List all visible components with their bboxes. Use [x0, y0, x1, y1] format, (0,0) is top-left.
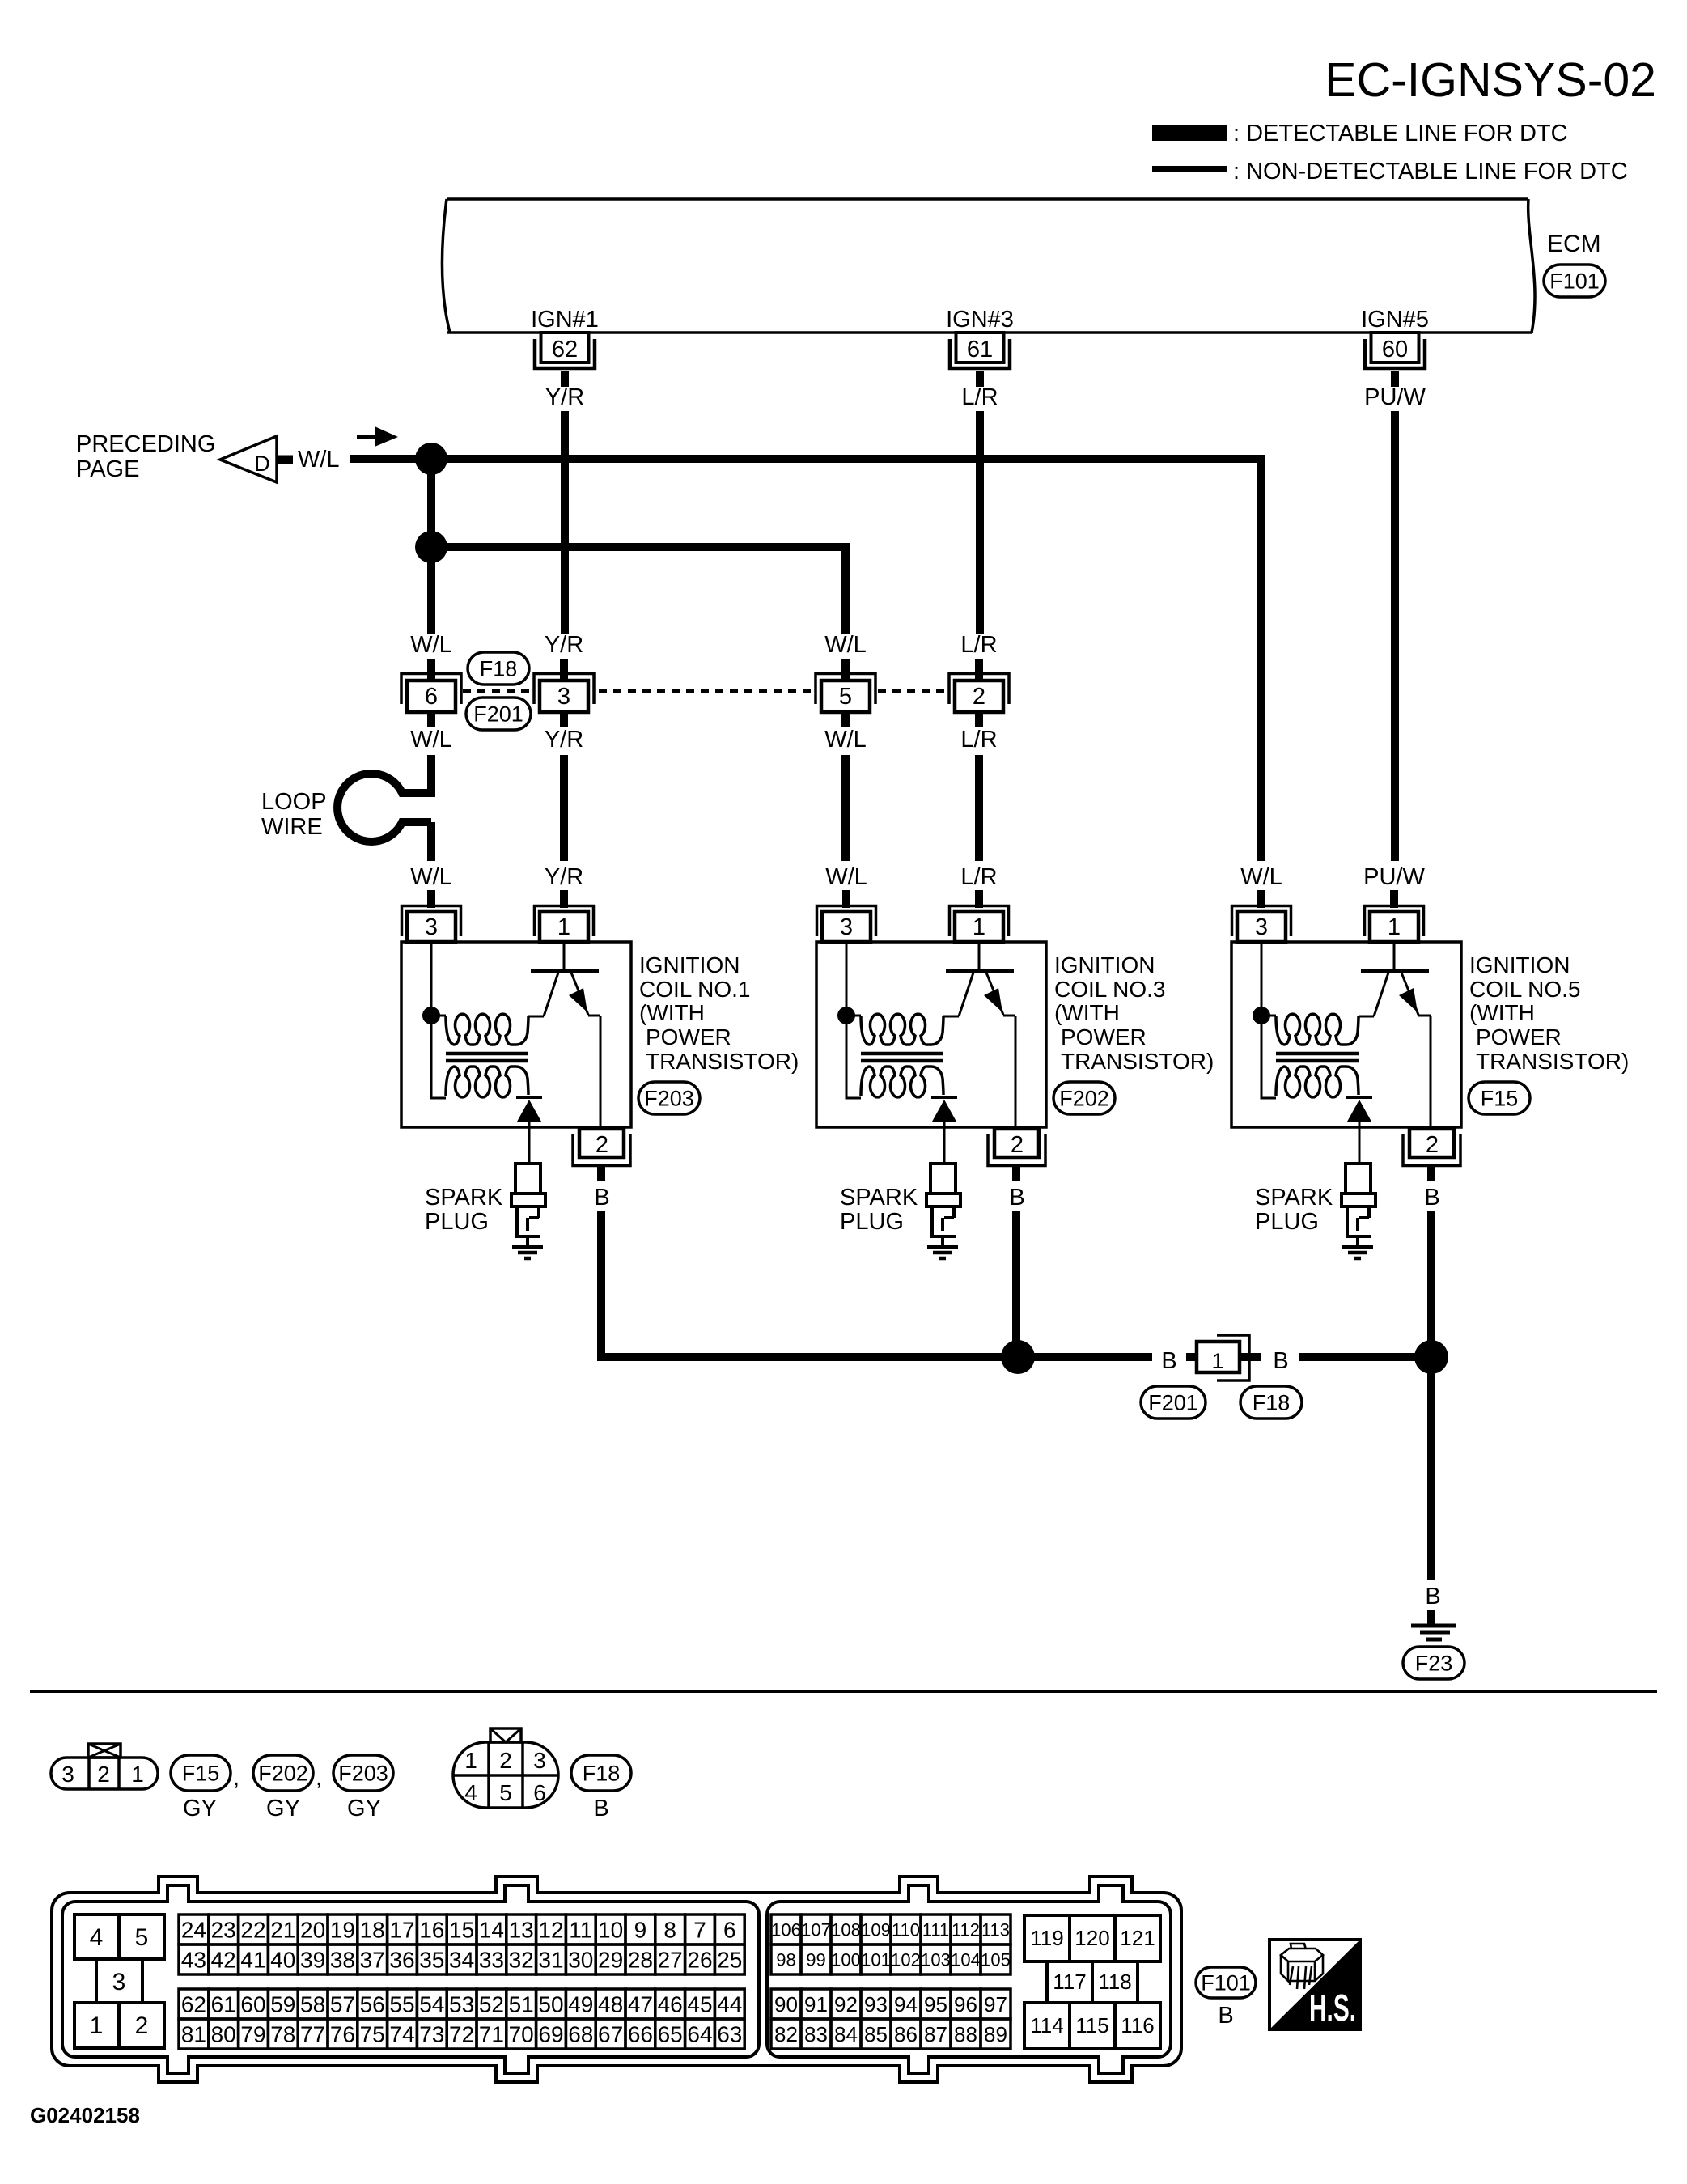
svg-text:19: 19 — [330, 1918, 355, 1943]
svg-text:GY: GY — [183, 1796, 217, 1821]
svg-text:F201: F201 — [1148, 1390, 1198, 1414]
svg-text:68: 68 — [568, 2022, 593, 2047]
svg-text:IGNITION: IGNITION — [1469, 952, 1570, 977]
svg-text:39: 39 — [300, 1948, 325, 1973]
svg-text:92: 92 — [834, 1992, 858, 2016]
svg-text:2: 2 — [135, 2012, 149, 2039]
svg-text:81: 81 — [181, 2022, 206, 2047]
svg-text:63: 63 — [717, 2022, 742, 2047]
svg-text:B: B — [1161, 1348, 1176, 1374]
svg-text:PRECEDING: PRECEDING — [76, 431, 215, 457]
svg-text:(WITH: (WITH — [1469, 1000, 1535, 1025]
svg-text:7: 7 — [693, 1918, 706, 1943]
svg-text:108: 108 — [831, 1919, 861, 1940]
svg-text:W/L: W/L — [824, 632, 867, 658]
svg-text:74: 74 — [389, 2022, 414, 2047]
svg-text:52: 52 — [479, 1992, 504, 2017]
svg-text:32: 32 — [509, 1948, 534, 1973]
svg-text:85: 85 — [864, 2022, 888, 2046]
svg-text:PAGE: PAGE — [76, 456, 139, 482]
svg-text:L/R: L/R — [960, 727, 997, 753]
svg-text:45: 45 — [687, 1992, 712, 2017]
svg-text:3: 3 — [1255, 914, 1268, 940]
svg-text:91: 91 — [804, 1992, 828, 2016]
svg-text:1: 1 — [131, 1762, 144, 1787]
svg-text:14: 14 — [479, 1918, 504, 1943]
svg-text:POWER: POWER — [1476, 1024, 1562, 1050]
svg-text:COIL NO.1: COIL NO.1 — [639, 977, 750, 1002]
svg-text:B: B — [1218, 2003, 1233, 2029]
svg-text:,: , — [316, 1765, 322, 1791]
svg-text:15: 15 — [449, 1918, 474, 1943]
svg-text:114: 114 — [1030, 2013, 1063, 2038]
svg-text:62: 62 — [181, 1992, 206, 2017]
svg-text:55: 55 — [389, 1992, 414, 2017]
svg-text:D: D — [254, 452, 270, 476]
svg-text:H.S.: H.S. — [1309, 1987, 1356, 2029]
svg-text:W/L: W/L — [410, 864, 452, 890]
svg-text:3: 3 — [840, 914, 853, 940]
svg-text:PLUG: PLUG — [1255, 1209, 1319, 1235]
svg-text:,: , — [233, 1765, 239, 1791]
svg-text:TRANSISTOR): TRANSISTOR) — [1476, 1049, 1629, 1074]
svg-text:IGNITION: IGNITION — [1054, 952, 1155, 977]
svg-text:117: 117 — [1053, 1970, 1086, 1994]
svg-text:110: 110 — [892, 1919, 920, 1940]
svg-text:23: 23 — [211, 1918, 236, 1943]
svg-text:31: 31 — [538, 1948, 563, 1973]
svg-text:51: 51 — [509, 1992, 534, 2017]
svg-text:(WITH: (WITH — [1054, 1000, 1120, 1025]
svg-text:2: 2 — [97, 1762, 110, 1787]
svg-text:62: 62 — [552, 337, 578, 363]
svg-text:F101: F101 — [1549, 269, 1600, 293]
svg-text:115: 115 — [1075, 2013, 1108, 2038]
svg-text:66: 66 — [628, 2022, 653, 2047]
svg-text:B: B — [1424, 1185, 1439, 1211]
svg-text:60: 60 — [1382, 337, 1408, 363]
svg-text:116: 116 — [1121, 2013, 1154, 2038]
svg-text:: DETECTABLE LINE FOR DTC: : DETECTABLE LINE FOR DTC — [1233, 121, 1568, 146]
svg-text:120: 120 — [1075, 1926, 1109, 1950]
svg-text:40: 40 — [270, 1948, 295, 1973]
svg-text:L/R: L/R — [960, 632, 997, 658]
svg-text:78: 78 — [270, 2022, 295, 2047]
svg-text:75: 75 — [360, 2022, 385, 2047]
svg-text:: NON-DETECTABLE LINE FOR DTC: : NON-DETECTABLE LINE FOR DTC — [1233, 159, 1628, 184]
svg-text:76: 76 — [330, 2022, 355, 2047]
svg-text:Y/R: Y/R — [545, 632, 583, 658]
svg-text:58: 58 — [300, 1992, 325, 2017]
svg-text:16: 16 — [419, 1918, 444, 1943]
svg-text:53: 53 — [449, 1992, 474, 2017]
svg-text:24: 24 — [181, 1918, 206, 1943]
svg-text:35: 35 — [419, 1948, 444, 1973]
svg-text:B: B — [1009, 1185, 1024, 1211]
svg-text:48: 48 — [598, 1992, 623, 2017]
svg-text:F23: F23 — [1415, 1651, 1453, 1675]
svg-text:18: 18 — [360, 1918, 385, 1943]
svg-text:5: 5 — [839, 684, 852, 710]
svg-text:F18: F18 — [583, 1761, 621, 1785]
svg-text:49: 49 — [568, 1992, 593, 2017]
svg-text:3: 3 — [425, 914, 438, 940]
svg-text:61: 61 — [967, 337, 993, 363]
svg-text:104: 104 — [951, 1949, 981, 1970]
svg-text:72: 72 — [449, 2022, 474, 2047]
svg-text:F101: F101 — [1201, 1970, 1251, 1995]
svg-text:25: 25 — [717, 1948, 742, 1973]
svg-text:93: 93 — [864, 1992, 888, 2016]
svg-text:10: 10 — [598, 1918, 623, 1943]
svg-text:8: 8 — [663, 1918, 676, 1943]
svg-text:ECM: ECM — [1547, 231, 1601, 257]
svg-text:97: 97 — [984, 1992, 1007, 2016]
svg-text:12: 12 — [538, 1918, 563, 1943]
svg-text:28: 28 — [628, 1948, 653, 1973]
svg-text:Y/R: Y/R — [545, 727, 583, 753]
svg-text:SPARK: SPARK — [425, 1185, 503, 1211]
svg-text:WIRE: WIRE — [261, 814, 323, 840]
svg-text:COIL NO.3: COIL NO.3 — [1054, 977, 1165, 1002]
svg-text:20: 20 — [300, 1918, 325, 1943]
svg-text:PLUG: PLUG — [425, 1209, 489, 1235]
svg-text:64: 64 — [687, 2022, 712, 2047]
svg-text:79: 79 — [240, 2022, 265, 2047]
svg-text:F18: F18 — [1253, 1390, 1291, 1414]
svg-text:F15: F15 — [182, 1761, 220, 1785]
svg-text:PLUG: PLUG — [840, 1209, 904, 1235]
svg-text:6: 6 — [425, 684, 438, 710]
svg-text:Y/R: Y/R — [545, 384, 584, 410]
svg-text:61: 61 — [211, 1992, 236, 2017]
svg-text:W/L: W/L — [298, 447, 340, 473]
svg-text:(WITH: (WITH — [639, 1000, 705, 1025]
svg-text:1: 1 — [973, 914, 985, 940]
svg-text:EC-IGNSYS-02: EC-IGNSYS-02 — [1325, 53, 1656, 107]
svg-text:29: 29 — [598, 1948, 623, 1973]
svg-text:GY: GY — [347, 1796, 381, 1821]
svg-text:38: 38 — [330, 1948, 355, 1973]
svg-text:L/R: L/R — [961, 384, 998, 410]
svg-text:4: 4 — [90, 1924, 104, 1951]
svg-text:46: 46 — [658, 1992, 683, 2017]
svg-text:B: B — [593, 1796, 608, 1821]
svg-text:11: 11 — [569, 1918, 592, 1943]
svg-text:84: 84 — [834, 2022, 858, 2046]
svg-text:30: 30 — [568, 1948, 593, 1973]
svg-text:POWER: POWER — [1061, 1024, 1147, 1050]
svg-text:3: 3 — [533, 1748, 546, 1773]
svg-text:F201: F201 — [473, 702, 523, 726]
svg-text:1: 1 — [90, 2012, 104, 2039]
svg-text:105: 105 — [981, 1949, 1011, 1970]
svg-text:96: 96 — [954, 1992, 977, 2016]
svg-text:56: 56 — [360, 1992, 385, 2017]
svg-text:77: 77 — [300, 2022, 325, 2047]
svg-text:42: 42 — [211, 1948, 236, 1973]
svg-text:103: 103 — [921, 1949, 951, 1970]
svg-text:F15: F15 — [1481, 1086, 1519, 1110]
svg-text:22: 22 — [240, 1918, 265, 1943]
svg-text:21: 21 — [270, 1918, 295, 1943]
svg-text:100: 100 — [831, 1949, 861, 1970]
svg-text:PU/W: PU/W — [1363, 864, 1425, 890]
svg-text:13: 13 — [509, 1918, 534, 1943]
svg-text:POWER: POWER — [646, 1024, 731, 1050]
svg-text:F18: F18 — [480, 656, 518, 681]
svg-text:1: 1 — [464, 1748, 477, 1773]
svg-text:26: 26 — [687, 1948, 712, 1973]
svg-text:6: 6 — [723, 1918, 736, 1943]
svg-text:88: 88 — [954, 2022, 977, 2046]
svg-text:109: 109 — [861, 1919, 891, 1940]
svg-text:B: B — [1425, 1584, 1440, 1609]
svg-text:2: 2 — [973, 684, 985, 710]
svg-text:SPARK: SPARK — [840, 1185, 918, 1211]
svg-text:F202: F202 — [1059, 1086, 1109, 1110]
svg-text:50: 50 — [538, 1992, 563, 2017]
svg-text:102: 102 — [891, 1949, 921, 1970]
svg-text:B: B — [594, 1185, 609, 1211]
svg-text:82: 82 — [774, 2022, 798, 2046]
svg-text:34: 34 — [449, 1948, 474, 1973]
svg-text:54: 54 — [419, 1992, 444, 2017]
svg-text:59: 59 — [270, 1992, 295, 2017]
svg-text:IGN#1: IGN#1 — [531, 307, 599, 333]
svg-text:4: 4 — [464, 1780, 477, 1805]
svg-text:5: 5 — [499, 1780, 512, 1805]
svg-text:G02402158: G02402158 — [30, 2103, 140, 2127]
svg-text:80: 80 — [211, 2022, 236, 2047]
svg-text:2: 2 — [596, 1132, 608, 1158]
svg-text:119: 119 — [1030, 1926, 1063, 1950]
svg-text:1: 1 — [1211, 1349, 1223, 1373]
svg-text:17: 17 — [389, 1918, 414, 1943]
svg-text:IGNITION: IGNITION — [639, 952, 740, 977]
svg-text:3: 3 — [61, 1762, 74, 1787]
svg-text:41: 41 — [240, 1948, 265, 1973]
svg-text:TRANSISTOR): TRANSISTOR) — [646, 1049, 799, 1074]
svg-text:2: 2 — [1011, 1132, 1024, 1158]
svg-text:65: 65 — [658, 2022, 683, 2047]
svg-text:67: 67 — [598, 2022, 623, 2047]
svg-text:57: 57 — [330, 1992, 355, 2017]
svg-text:44: 44 — [717, 1992, 742, 2017]
svg-text:F203: F203 — [338, 1761, 388, 1785]
svg-text:B: B — [1273, 1348, 1288, 1374]
svg-text:W/L: W/L — [1240, 864, 1282, 890]
svg-text:9: 9 — [634, 1918, 647, 1943]
svg-text:3: 3 — [557, 684, 570, 710]
svg-text:SPARK: SPARK — [1255, 1185, 1333, 1211]
svg-text:87: 87 — [924, 2022, 947, 2046]
svg-text:F203: F203 — [644, 1086, 694, 1110]
svg-text:27: 27 — [658, 1948, 683, 1973]
svg-text:60: 60 — [240, 1992, 265, 2017]
svg-text:3: 3 — [112, 1969, 126, 1995]
svg-text:1: 1 — [1388, 914, 1401, 940]
svg-text:5: 5 — [135, 1924, 149, 1951]
svg-text:101: 101 — [861, 1949, 891, 1970]
svg-text:6: 6 — [533, 1780, 546, 1805]
svg-text:L/R: L/R — [960, 864, 997, 890]
svg-text:TRANSISTOR): TRANSISTOR) — [1061, 1049, 1214, 1074]
svg-text:69: 69 — [538, 2022, 563, 2047]
svg-text:118: 118 — [1098, 1970, 1131, 1994]
svg-text:112: 112 — [952, 1919, 980, 1940]
svg-text:36: 36 — [389, 1948, 414, 1973]
svg-text:F202: F202 — [258, 1761, 308, 1785]
svg-text:1: 1 — [557, 914, 570, 940]
svg-text:2: 2 — [499, 1748, 512, 1773]
svg-text:70: 70 — [509, 2022, 534, 2047]
svg-text:113: 113 — [981, 1919, 1010, 1940]
svg-text:73: 73 — [419, 2022, 444, 2047]
svg-text:GY: GY — [266, 1796, 300, 1821]
svg-text:90: 90 — [774, 1992, 798, 2016]
svg-text:LOOP: LOOP — [261, 789, 327, 815]
svg-text:111: 111 — [922, 1919, 949, 1940]
svg-text:2: 2 — [1426, 1132, 1439, 1158]
svg-text:33: 33 — [479, 1948, 504, 1973]
svg-text:89: 89 — [984, 2022, 1007, 2046]
svg-text:43: 43 — [181, 1948, 206, 1973]
svg-text:83: 83 — [804, 2022, 828, 2046]
svg-text:95: 95 — [924, 1992, 947, 2016]
svg-text:W/L: W/L — [410, 727, 452, 753]
svg-text:W/L: W/L — [410, 632, 452, 658]
svg-text:99: 99 — [806, 1949, 825, 1970]
svg-text:IGN#3: IGN#3 — [946, 307, 1014, 333]
svg-text:107: 107 — [801, 1919, 831, 1940]
svg-text:37: 37 — [360, 1948, 385, 1973]
svg-text:47: 47 — [628, 1992, 653, 2017]
svg-text:COIL NO.5: COIL NO.5 — [1469, 977, 1580, 1002]
svg-text:71: 71 — [479, 2022, 504, 2047]
svg-text:86: 86 — [894, 2022, 918, 2046]
svg-text:94: 94 — [894, 1992, 918, 2016]
svg-text:121: 121 — [1120, 1926, 1155, 1950]
svg-text:Y/R: Y/R — [545, 864, 583, 890]
svg-text:PU/W: PU/W — [1364, 384, 1426, 410]
svg-text:W/L: W/L — [824, 727, 867, 753]
svg-text:W/L: W/L — [825, 864, 867, 890]
svg-text:IGN#5: IGN#5 — [1361, 307, 1429, 333]
svg-text:98: 98 — [776, 1949, 795, 1970]
svg-text:106: 106 — [771, 1919, 801, 1940]
